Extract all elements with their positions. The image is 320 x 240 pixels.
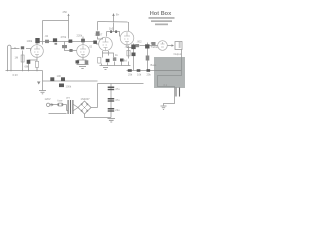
svg-text:B+: B+ (116, 13, 120, 17)
svg-text:470k: 470k (61, 35, 67, 39)
svg-text:1M: 1M (15, 56, 19, 60)
svg-text:1k: 1k (115, 53, 118, 57)
svg-text:10k: 10k (137, 72, 142, 76)
svg-text:Hot Box: Hot Box (150, 11, 172, 17)
svg-text:In: In (14, 46, 17, 50)
svg-text:12AX7: 12AX7 (95, 33, 103, 37)
svg-text:PT: PT (67, 96, 71, 100)
svg-text:100k: 100k (66, 85, 72, 89)
svg-text:1M: 1M (151, 41, 155, 45)
svg-text:0.1: 0.1 (164, 83, 168, 87)
svg-text:68k: 68k (25, 65, 30, 69)
svg-text:47u: 47u (115, 87, 120, 91)
svg-text:.02: .02 (45, 34, 49, 38)
svg-text:.01: .01 (125, 45, 129, 49)
svg-text:100: 100 (57, 74, 62, 78)
svg-text:.02: .02 (89, 45, 93, 49)
svg-text:6.3V: 6.3V (13, 73, 19, 77)
svg-text:250: 250 (63, 10, 68, 14)
svg-text:Mid: Mid (123, 59, 128, 63)
svg-text:100k: 100k (27, 39, 33, 43)
svg-text:22u: 22u (115, 108, 120, 112)
svg-text:Treble: Treble (151, 45, 159, 49)
svg-text:.002: .002 (137, 39, 143, 43)
svg-text:1k5: 1k5 (109, 26, 114, 30)
svg-text:Output: Output (174, 52, 182, 56)
svg-text:fuse: fuse (58, 99, 63, 103)
svg-text:25k: 25k (147, 72, 152, 76)
svg-text:120V: 120V (45, 97, 51, 101)
svg-text:47u: 47u (115, 98, 120, 102)
svg-text:1N4007: 1N4007 (81, 97, 91, 101)
svg-text:220k: 220k (77, 34, 83, 38)
svg-text:Bass: Bass (151, 63, 157, 67)
svg-text:25k: 25k (128, 72, 133, 76)
